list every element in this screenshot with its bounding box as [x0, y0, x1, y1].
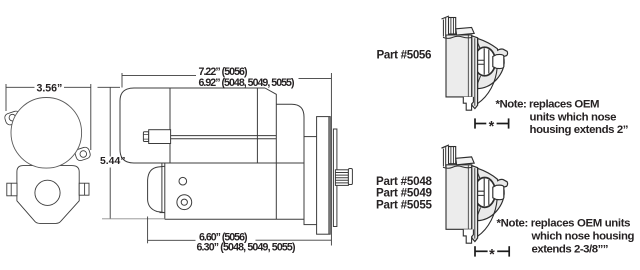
ear hole upper-left — [9, 114, 16, 121]
bracket inner edge — [161, 163, 163, 213]
slab front edge line — [467, 36, 469, 97]
svg-text:5.44”: 5.44” — [100, 156, 125, 167]
mount bracket profile — [148, 166, 165, 212]
dim 5.44 bottom extension — [102, 218, 165, 220]
dim 6.30 left extension — [147, 217, 149, 244]
dim 3.56 left extension — [5, 84, 7, 111]
through bolt head — [143, 132, 148, 142]
svg-text:*Note: replaces OEM units: *Note: replaces OEM units — [497, 218, 631, 230]
nose cone silhouette — [478, 38, 508, 88]
svg-text:6.30” (5048, 5049, 5055): 6.30” (5048, 5049, 5055) — [197, 241, 296, 253]
mounting flange plate — [317, 117, 331, 235]
through bolt nut — [149, 130, 171, 144]
mounting ear upper-left — [4, 110, 23, 126]
motor body circle — [11, 98, 82, 169]
dim 6.60 line right — [256, 239, 332, 241]
mounting ear quad — [456, 27, 474, 35]
front plate — [333, 129, 337, 227]
svg-text:*Note: replaces OEM: *Note: replaces OEM — [496, 98, 600, 110]
flange inner line — [474, 38, 476, 106]
center housing top — [276, 104, 304, 219]
housing front edge — [164, 163, 166, 219]
body slab — [446, 35, 472, 97]
bolt hole large outer — [177, 195, 192, 210]
dim 7.22 left extension — [121, 73, 123, 88]
pinion gear — [335, 170, 348, 186]
svg-text:extends 2-3/8””: extends 2-3/8”” — [532, 243, 609, 255]
nose housing photo top — [442, 16, 508, 110]
dim 7.22 line left — [122, 74, 196, 76]
dim right extension line — [330, 73, 332, 246]
svg-text:*: * — [489, 119, 495, 135]
rear edge strip — [443, 18, 445, 37]
terminal stud — [449, 18, 456, 35]
ear hole right — [80, 151, 87, 158]
drive housing bell — [17, 166, 79, 224]
svg-text:3.56”: 3.56” — [36, 83, 62, 95]
field band — [256, 88, 258, 163]
stud facet lines — [451, 18, 454, 34]
dim 7.22 line right — [299, 77, 332, 79]
through bolt shaft — [171, 136, 276, 139]
gear housing bottom — [165, 218, 304, 220]
svg-text:housing extends 2”: housing extends 2” — [530, 124, 629, 136]
svg-text:Part #5056: Part #5056 — [377, 49, 433, 62]
bolt hole large inner — [181, 199, 187, 205]
pinion teeth lines — [335, 173, 348, 183]
dim 5.44 top extension — [98, 86, 121, 88]
dim 3.56 right extension — [90, 84, 92, 150]
nose bore circle — [35, 180, 60, 205]
bearing boss plate — [304, 137, 317, 225]
shoulder wave — [443, 36, 472, 38]
lower swoosh outer — [477, 68, 497, 104]
motor cylinder outline — [120, 88, 304, 163]
svg-text:which nose housing: which nose housing — [531, 231, 635, 243]
end cap separator — [169, 88, 171, 163]
dim 3.56 line left segment — [6, 86, 35, 88]
side tab left — [7, 183, 17, 196]
flange inner edge — [328, 117, 330, 235]
bracket bottom — [160, 212, 165, 214]
dim 5.44 vertical line lower — [109, 168, 111, 219]
front chamfer and body right edge — [265, 88, 276, 219]
bolt head facet lines — [143, 135, 148, 140]
dim 5.44 vertical line upper — [109, 87, 111, 156]
cone waist lines — [478, 43, 482, 84]
scale mark bottom — [475, 246, 509, 256]
nose housing photo bottom — [442, 145, 508, 243]
side tab right — [79, 183, 89, 195]
bolt hole small — [179, 177, 187, 185]
svg-text:units which nose: units which nose — [530, 111, 617, 123]
bushing knob — [493, 55, 504, 69]
scale mark top — [475, 118, 509, 128]
side tab left face line — [10, 183, 12, 196]
dim 3.56 line right segment — [64, 86, 91, 88]
flange band — [472, 36, 478, 109]
rear nut diagonal — [442, 16, 450, 19]
dim 6.30 line left — [148, 239, 196, 241]
side tab right face line — [84, 183, 86, 195]
svg-text:*: * — [489, 247, 495, 263]
svg-text:6.92” (5048, 5049, 5055): 6.92” (5048, 5049, 5055) — [199, 77, 295, 89]
boss center band — [484, 48, 489, 75]
bearing boss circle — [474, 47, 495, 76]
svg-text:Part #5055: Part #5055 — [376, 199, 433, 212]
mounting foot — [463, 97, 473, 110]
pinion end cap — [348, 169, 352, 185]
mounting ear right — [74, 146, 91, 161]
shaft bore lines — [474, 60, 485, 64]
